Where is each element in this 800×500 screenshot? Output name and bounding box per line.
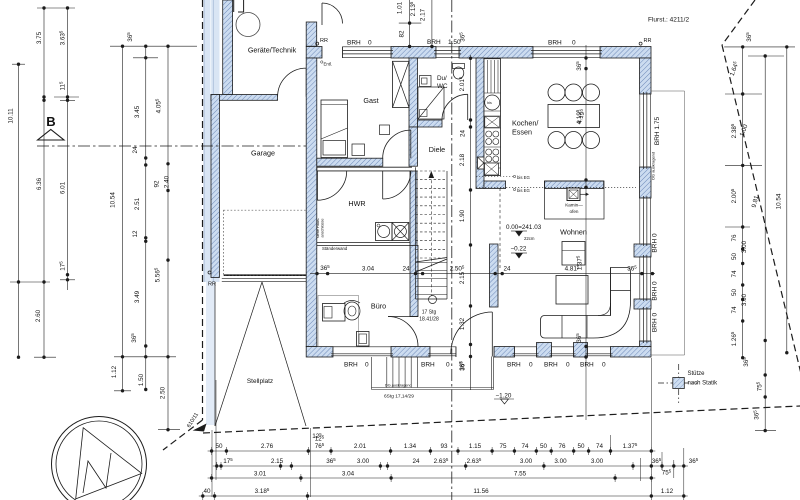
bed in Gast: [321, 100, 348, 158]
stud wall Staenderwand: [317, 243, 410, 246]
entrance door gap and arc: [322, 3, 343, 58]
upper floor edge hatched band at Kamin: [545, 181, 604, 189]
boundary corner marker triangle: [193, 424, 207, 432]
interior wall kitchen west: [476, 58, 484, 189]
interior wall Gast south (hatched): [317, 158, 383, 166]
north arrow compass: [52, 417, 147, 500]
label BRH 0 south Buero: [344, 362, 369, 369]
svg-text:RR: RR: [320, 38, 328, 44]
label OG auskragend: [651, 152, 656, 180]
WC shower: [418, 87, 444, 119]
svg-text:bis: bis: [487, 101, 492, 105]
pillar in Wohnen: [490, 244, 499, 307]
stair label 17 Stg 18.41/28: [419, 310, 439, 323]
tv sideboard: [562, 242, 585, 266]
north wall window Gast BRH 0: [341, 47, 394, 59]
svg-text:2.51: 2.51: [134, 197, 141, 210]
svg-text:Essen: Essen: [512, 128, 532, 137]
svg-text:−0.22: −0.22: [511, 246, 527, 253]
label 6Stg: [384, 394, 414, 400]
terrace door gap: [456, 347, 494, 358]
svg-text:3.75: 3.75: [36, 31, 43, 44]
svg-text:93: 93: [440, 443, 448, 450]
svg-text:BRH: BRH: [347, 40, 361, 47]
room label Gast: [363, 96, 378, 105]
label BRH 1.50 north window WC: [427, 39, 461, 46]
Geraete/Technik door: [278, 68, 307, 97]
outdoor steps 6Stg and terrace outline: [372, 357, 494, 390]
svg-text:BRH: BRH: [427, 39, 441, 46]
svg-text:50: 50: [215, 443, 223, 450]
label BRH 1.75 east window: [654, 117, 661, 146]
column Stuetze east 2: [634, 299, 651, 309]
label BRH 0 south window 4: [544, 362, 570, 369]
door arc HWR left: [317, 171, 346, 200]
svg-text:50: 50: [577, 443, 585, 450]
room label Stellplatz: [247, 378, 273, 385]
sofa: [541, 268, 631, 339]
svg-text:11.56: 11.56: [473, 488, 489, 495]
room label Wohnen: [560, 228, 587, 237]
dimension chain left A: [10, 6, 56, 359]
interior wall Gast/Diele vertical: [409, 58, 418, 127]
WC toilet: [453, 64, 465, 80]
svg-text:siehe Haus-: siehe Haus-: [316, 217, 320, 238]
dimension chain right middle: [739, 54, 784, 432]
svg-text:1.34: 1.34: [404, 443, 417, 450]
svg-text:76: 76: [731, 234, 738, 242]
svg-text:Du/: Du/: [437, 75, 447, 82]
dimension line middle horizontal: [310, 264, 655, 275]
door arc Buero: [388, 317, 418, 347]
dim 36|5 rotated at WC window: [459, 32, 467, 42]
svg-text:3.04: 3.04: [362, 266, 375, 273]
svg-text:0: 0: [602, 362, 606, 369]
svg-text:50: 50: [731, 289, 738, 297]
garage west wall: [211, 95, 219, 278]
svg-text:BRH: BRH: [544, 362, 558, 369]
svg-text:82: 82: [399, 30, 406, 38]
svg-text:2.17: 2.17: [419, 8, 426, 21]
svg-text:Kochen/: Kochen/: [512, 119, 538, 128]
door arc terrace: [451, 312, 493, 357]
label BRH 0 east window 1: [652, 233, 659, 253]
svg-text:1.12: 1.12: [111, 365, 118, 378]
svg-text:18.41/28: 18.41/28: [419, 317, 439, 323]
svg-text:Büro: Büro: [371, 302, 386, 311]
Geraete/Technik west wall: [223, 0, 233, 95]
roof drain RR garage: [208, 271, 216, 288]
kitchen small box bottom: [485, 163, 499, 175]
east wall window 1 BRH 0: [640, 196, 652, 246]
svg-text:Geräte/Technik: Geräte/Technik: [248, 46, 297, 55]
column Stuetze east 1: [634, 244, 651, 257]
dimension chains bottom: [199, 358, 699, 500]
south wall window 4 BRH 0: [550, 347, 576, 358]
coffee table: [556, 276, 588, 305]
label BRH 0 east window 3: [652, 313, 659, 333]
svg-text:DG.auskragend: DG.auskragend: [385, 383, 412, 387]
dimension chain garage 10.54 and 1.12: [110, 32, 198, 393]
dim 36|5 rotated south door pier: [459, 361, 467, 371]
shaft with X in Gast: [393, 61, 410, 107]
svg-text:92: 92: [154, 180, 161, 188]
svg-text:0: 0: [368, 40, 372, 47]
east wall window 3 BRH 0: [640, 307, 652, 343]
east wall window kitchen BRH 1.75: [640, 92, 652, 169]
vent label Entl: [321, 61, 333, 67]
svg-text:3.00: 3.00: [520, 458, 533, 465]
svg-text:2.01: 2.01: [354, 443, 367, 450]
svg-text:Diele: Diele: [429, 145, 445, 154]
level mark -1.20: [494, 393, 514, 405]
house north wall segments: [306, 47, 651, 59]
svg-text:3.04: 3.04: [342, 471, 355, 478]
property boundary dashed line bottom: [203, 406, 800, 433]
svg-text:2.50: 2.50: [160, 386, 167, 399]
south wall window 3 BRH 0: [513, 347, 539, 358]
room label Kochen/Essen: [512, 119, 538, 137]
flue box with X on wall end: [478, 157, 491, 169]
svg-text:1.15: 1.15: [469, 443, 482, 450]
label BRH 0 east window 2: [652, 281, 659, 301]
svg-text:BRH: BRH: [421, 362, 435, 369]
svg-text:2.60: 2.60: [35, 309, 42, 322]
svg-text:3.45: 3.45: [134, 105, 141, 118]
svg-text:2.15: 2.15: [271, 458, 284, 465]
svg-text:10.54: 10.54: [776, 193, 783, 209]
east wall window 2 BRH 0: [640, 255, 652, 301]
neighbour garage wall strip: [204, 0, 220, 425]
svg-text:7.55: 7.55: [514, 471, 527, 478]
OG overhang outline right: [651, 91, 685, 355]
Kaminofen box: [545, 181, 605, 219]
svg-text:50: 50: [540, 443, 548, 450]
dimension chain right inner: [724, 45, 795, 359]
svg-text:Wohnen: Wohnen: [560, 228, 587, 237]
dimension chain garage mid: [130, 45, 158, 392]
desk platform outline: [318, 296, 359, 347]
svg-text:1.90: 1.90: [459, 209, 466, 222]
svg-text:17 Stg: 17 Stg: [422, 310, 437, 316]
svg-text:3.00: 3.00: [357, 458, 370, 465]
svg-text:BRH: BRH: [344, 362, 358, 369]
svg-text:10.54: 10.54: [110, 192, 117, 208]
room label Diele: [429, 145, 445, 154]
svg-text:−1.20: −1.20: [496, 393, 512, 400]
svg-text:HWR: HWR: [348, 199, 365, 208]
svg-text:2.18: 2.18: [459, 153, 466, 166]
svg-text:74: 74: [731, 306, 738, 314]
door arc HWR right: [383, 171, 411, 199]
label BRH 0 north window kitchen: [548, 40, 576, 47]
svg-text:1.32: 1.32: [459, 317, 466, 330]
svg-text:6.36: 6.36: [36, 177, 43, 190]
garage door double line: [222, 275, 311, 282]
label DG auskragend bottom: [385, 383, 412, 387]
level mark -0.22: [511, 246, 528, 259]
dim 12|5 under stellplatz: [312, 432, 322, 440]
svg-text:Garage: Garage: [251, 149, 275, 158]
parcel number 610/11: [186, 412, 200, 429]
svg-text:0: 0: [446, 362, 450, 369]
house south wall segments: [306, 343, 651, 358]
svg-text:0: 0: [572, 40, 576, 47]
svg-text:22cm: 22cm: [524, 236, 535, 241]
label Staenderwand: [322, 246, 348, 251]
dashed line pillar reference: [499, 188, 501, 268]
svg-text:3.00: 3.00: [741, 293, 748, 306]
svg-text:40: 40: [203, 488, 211, 495]
svg-text:Flurst.: 4211/2: Flurst.: 4211/2: [648, 17, 689, 24]
svg-text:BRH: BRH: [507, 362, 521, 369]
dining chairs: [548, 84, 600, 149]
svg-text:12: 12: [132, 230, 139, 238]
kitchen sink circle: [485, 95, 500, 110]
boiler circle: [236, 13, 260, 37]
svg-text:3.00: 3.00: [591, 458, 604, 465]
dotted line bis EG: [476, 177, 636, 188]
dim 1.37|5 rotated: [576, 255, 584, 270]
section marker B: [38, 114, 64, 140]
section line vertical: [451, 0, 453, 500]
svg-text:6Stg 17,14/29: 6Stg 17,14/29: [384, 394, 414, 400]
label BRH 0 south window 2: [421, 362, 450, 369]
svg-text:BRH 0: BRH 0: [652, 281, 659, 301]
svg-text:2.15: 2.15: [459, 271, 466, 284]
svg-text:BRH 0: BRH 0: [652, 313, 659, 333]
svg-text:Stellplatz: Stellplatz: [247, 378, 273, 385]
desk: [323, 304, 346, 322]
svg-text:2.40: 2.40: [164, 175, 171, 188]
svg-text:0: 0: [529, 362, 533, 369]
svg-text:bis EG: bis EG: [517, 188, 531, 193]
kitchen cooktop circles: [486, 131, 499, 162]
room label Geraete/Technik: [248, 46, 297, 55]
HWR north partition wall: [317, 167, 412, 171]
svg-text:0.00=241.03: 0.00=241.03: [506, 224, 542, 231]
svg-text:24: 24: [132, 146, 139, 154]
svg-text:anschlüsse: anschlüsse: [321, 219, 325, 238]
property boundary dashed line right diagonal: [722, 45, 800, 382]
level mark 0.00: [506, 224, 542, 241]
dimension chain left 10.11: [8, 62, 26, 358]
kitchen hob box: [485, 117, 500, 128]
upper floor edge hatched stub left: [484, 181, 506, 189]
svg-text:74: 74: [596, 443, 604, 450]
property boundary dashed line left: [163, 0, 203, 450]
section line B-B horizontal: [37, 145, 306, 147]
door arc WC: [442, 94, 468, 120]
Geraete/Technik north door frame: [234, 0, 244, 12]
svg-text:24: 24: [460, 130, 467, 138]
property boundary dashed line top right: [722, 0, 755, 45]
Buero east wall: [410, 245, 418, 316]
svg-text:1.01: 1.01: [397, 1, 404, 14]
svg-text:Stütze: Stütze: [688, 371, 706, 377]
dimension chain top: [397, 0, 434, 48]
svg-text:24: 24: [503, 266, 511, 273]
svg-text:1.50: 1.50: [138, 373, 145, 386]
stove symbol: [567, 188, 589, 201]
svg-text:Ständerwand: Ständerwand: [322, 246, 348, 251]
door arc Gast: [383, 130, 411, 158]
dimension chain interior vertical: [458, 55, 472, 390]
south wall window 5 BRH 0: [586, 347, 613, 358]
Stellplatz outline: [215, 282, 306, 426]
label Kamin-ofen: [565, 203, 583, 215]
office chair: [344, 301, 360, 321]
house west wall: [306, 58, 317, 347]
north wall window WC BRH 1.50: [434, 47, 461, 59]
svg-text:3.49: 3.49: [134, 290, 141, 303]
svg-text:Gast: Gast: [363, 96, 378, 105]
svg-text:24: 24: [402, 266, 410, 273]
svg-text:Kamin—: Kamin—: [565, 203, 583, 208]
svg-text:10.11: 10.11: [8, 108, 15, 124]
WC washbasin: [420, 76, 432, 87]
garage dotted area: [224, 210, 307, 275]
label Flurst 4211/2: [648, 17, 689, 24]
svg-text:BRH 1.75: BRH 1.75: [654, 117, 661, 146]
room label Buero: [371, 302, 386, 311]
svg-text:75: 75: [499, 443, 507, 450]
printer: [357, 332, 370, 347]
svg-text:nach Statik: nach Statik: [688, 381, 719, 387]
house east wall segments: [640, 58, 652, 347]
label BRH 0 south window 5: [580, 362, 606, 369]
room label Du/WC: [437, 75, 448, 90]
svg-text:1.12: 1.12: [661, 488, 674, 495]
label BRH 0 south window 3: [507, 362, 533, 369]
Geraete/Technik south wall (garage north wall): [211, 95, 278, 101]
dim 4.19|5 rotated in table: [575, 108, 587, 125]
room label HWR: [348, 199, 365, 208]
note siehe Hausanschluesse: [316, 217, 325, 238]
svg-text:Entl.: Entl.: [324, 62, 333, 67]
svg-text:74: 74: [521, 443, 529, 450]
svg-text:50: 50: [731, 253, 738, 261]
dimension chain left B: [37, 6, 79, 290]
svg-text:RR: RR: [644, 38, 652, 44]
label bis EG 1: [513, 175, 530, 180]
HWR east wall: [410, 171, 417, 246]
svg-text:6.01: 6.01: [60, 181, 67, 194]
svg-text:0: 0: [365, 362, 369, 369]
north wall window kitchen BRH 0: [531, 47, 602, 59]
svg-text:76: 76: [558, 443, 566, 450]
nightstand 2: [380, 125, 390, 135]
washer: [376, 223, 393, 241]
roof drain RR right: [639, 38, 651, 45]
svg-text:BRH: BRH: [580, 362, 594, 369]
Geraete/Technik east wall: [306, 22, 317, 46]
south wall window Buero BRH 0: [331, 347, 393, 358]
svg-text:24: 24: [412, 458, 420, 465]
svg-text:OG auskragend: OG auskragend: [651, 152, 656, 180]
svg-text:0: 0: [566, 362, 570, 369]
svg-text:bis EG: bis EG: [517, 175, 531, 180]
interior wall WC south: [418, 120, 443, 127]
legend Stuetze nach Statik: [658, 364, 718, 403]
svg-text:BRH 0: BRH 0: [652, 233, 659, 253]
nightstand 1: [352, 144, 365, 156]
roof drain RR left: [316, 38, 328, 45]
label bis EG 2: [513, 188, 530, 193]
svg-text:2.76: 2.76: [261, 443, 274, 450]
svg-text:74: 74: [731, 270, 738, 278]
svg-text:3.01: 3.01: [254, 471, 267, 478]
staircase: [416, 167, 448, 303]
label BRH 0 north window Gast: [347, 40, 372, 47]
dryer: [392, 223, 409, 241]
svg-text:3.00: 3.00: [554, 458, 567, 465]
svg-text:3.00: 3.00: [741, 240, 748, 253]
room label Garage: [251, 149, 275, 158]
dimension chain right outer 10.54: [745, 32, 789, 355]
dimension chain garage right: [154, 45, 181, 432]
dimension chain kitchen vertical: [575, 45, 588, 420]
dining table: [548, 105, 600, 128]
svg-text:B: B: [46, 114, 55, 129]
svg-text:BRH: BRH: [548, 40, 562, 47]
south wall window 2 BRH 0: [428, 347, 458, 358]
svg-text:WC: WC: [437, 83, 448, 90]
interior wall Gast south piece: [409, 127, 418, 166]
kitchen counter: [484, 59, 501, 176]
svg-text:ofen: ofen: [570, 209, 579, 214]
